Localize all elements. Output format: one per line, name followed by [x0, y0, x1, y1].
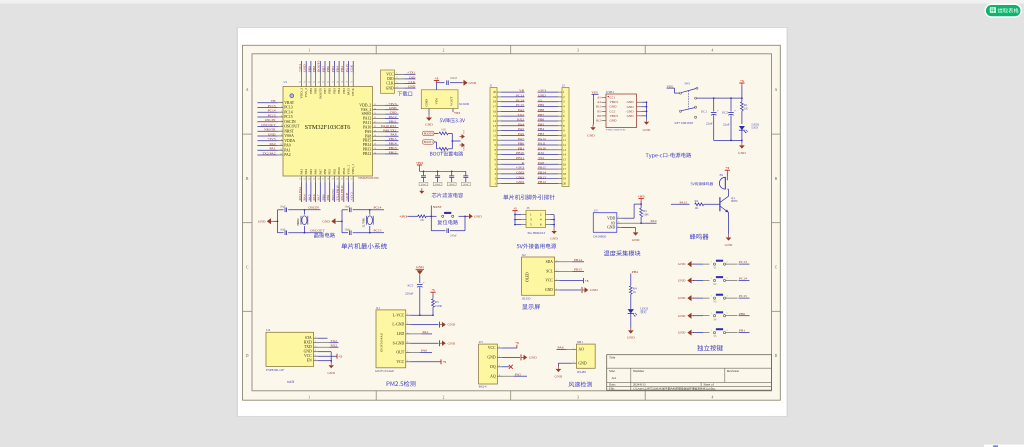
svg-text:22uF: 22uF [723, 122, 730, 126]
power +5 at regulator input [434, 76, 445, 90]
svg-text:150R: 150R [435, 304, 443, 308]
svg-text:+5: +5 [435, 76, 439, 80]
svg-text:PB4: PB4 [538, 127, 544, 131]
svg-text:DIO: DIO [387, 77, 394, 81]
svg-text:1: 1 [711, 330, 712, 332]
svg-text:U4: U4 [266, 328, 270, 332]
sensor U5 DS18B20 body [593, 213, 621, 233]
connector USB1 Type-C body [606, 94, 637, 128]
svg-text:OSCIN: OSCIN [284, 120, 296, 124]
svg-text:1: 1 [556, 288, 557, 290]
svg-text:45: 45 [313, 81, 315, 83]
value label TYPEC-2000-6CP6 [606, 129, 626, 132]
svg-text:BOOT1: BOOT1 [331, 189, 335, 201]
svg-text:VDDA: VDDA [284, 139, 295, 143]
svg-text:PB9: PB9 [309, 88, 313, 94]
svg-text:SCL: SCL [546, 270, 553, 274]
svg-text:VIN: VIN [667, 84, 674, 88]
svg-text:Number: Number [633, 369, 645, 373]
svg-text:1: 1 [407, 314, 408, 316]
svg-text:PC14: PC14 [739, 277, 747, 281]
key switch S3 with gnd and net PC15 [678, 294, 750, 304]
schematic sheet [237, 27, 789, 417]
power +5 at buzzer [725, 166, 730, 177]
svg-text:15: 15 [374, 148, 376, 150]
module U4 ESP8266-12F body [266, 332, 318, 366]
svg-text:PB3: PB3 [340, 66, 344, 72]
svg-text:GND: GND [545, 288, 553, 292]
label 5V外接备用电源 [517, 243, 557, 248]
svg-text:PB11: PB11 [516, 156, 524, 160]
value label RS485 [577, 370, 586, 374]
svg-text:PC14: PC14 [516, 98, 524, 102]
svg-text:GND: GND [738, 151, 746, 155]
svg-text:32.768K: 32.768K [362, 218, 365, 228]
svg-text:NPN: NPN [731, 199, 738, 203]
svg-text:PA11: PA11 [538, 142, 546, 146]
svg-text:4: 4 [712, 395, 714, 399]
net RX2 wifi [318, 343, 339, 347]
svg-text:4: 4 [315, 350, 316, 352]
power +5 at PM2.5 VCC [411, 359, 447, 364]
net TX2 wifi [318, 339, 339, 343]
gnd port at OLED [560, 287, 599, 293]
svg-text:100nF: 100nF [449, 183, 456, 186]
svg-text:AO: AO [578, 348, 584, 352]
svg-text:+3V3: +3V3 [267, 137, 275, 141]
switch SW1 [680, 82, 699, 119]
svg-text:10K: 10K [441, 129, 446, 132]
svg-text:MQ-4: MQ-4 [479, 385, 487, 389]
DS18B20 VDD wire [622, 203, 642, 218]
connector XH1 body [572, 344, 596, 368]
svg-text:PB3: PB3 [538, 132, 544, 136]
designator U4 [266, 328, 270, 332]
svg-text:GND: GND [587, 134, 595, 138]
gnd at XH1 [555, 363, 572, 378]
svg-text:Revision: Revision [727, 369, 739, 373]
svg-text:PB15: PB15 [389, 137, 397, 141]
svg-text:U1: U1 [284, 80, 288, 84]
label 显示屏 [522, 304, 540, 309]
power +5 at MQ-4 [502, 341, 520, 348]
svg-text:J3: J3 [527, 206, 530, 210]
designator X1 [376, 306, 380, 310]
svg-text:GND: GND [408, 85, 416, 89]
capacitor C4 30pF [345, 229, 370, 236]
svg-text:VBUS: VBUS [610, 100, 619, 104]
svg-text:VDD_3: VDD_3 [300, 88, 304, 99]
svg-text:PA6: PA6 [558, 346, 564, 350]
resistor R2 1K at base [671, 199, 720, 210]
USB1 left gnd [587, 94, 596, 137]
svg-text:PB1: PB1 [328, 168, 332, 174]
svg-text:SW1: SW1 [685, 82, 691, 86]
svg-text:TX3 PB10: TX3 PB10 [336, 185, 340, 200]
svg-text:PA5: PA5 [518, 127, 524, 131]
svg-text:GND: GND [386, 86, 394, 90]
svg-text:+3V3: +3V3 [638, 194, 645, 198]
svg-text:AQ: AQ [490, 374, 496, 378]
svg-text:VCC: VCC [386, 73, 394, 77]
svg-text:1k: 1k [633, 290, 637, 294]
svg-text:3: 3 [618, 226, 619, 228]
led LED1 [739, 122, 760, 140]
svg-text:IO: IO [611, 221, 615, 225]
svg-text:3: 3 [407, 332, 408, 334]
svg-text:VBAT: VBAT [284, 101, 295, 105]
svg-text:100nF: 100nF [450, 234, 458, 237]
designator U3 [479, 340, 483, 344]
power +3V3 reset [399, 214, 418, 218]
svg-text:2: 2 [727, 262, 728, 264]
svg-text:2: 2 [727, 330, 728, 332]
svg-text:3: 3 [315, 346, 316, 348]
svg-text:B12: B12 [596, 118, 601, 122]
resistor R4 1K [629, 286, 637, 309]
svg-text:RX1: RX1 [538, 151, 545, 155]
svg-text:RX2: RX2 [331, 343, 338, 347]
svg-text:PA9: PA9 [365, 130, 372, 134]
port BOOT1 [423, 140, 435, 144]
svg-text:PB14: PB14 [363, 143, 372, 147]
wifi STA stub [318, 337, 328, 339]
ground below regulator [425, 109, 433, 127]
svg-text:38: 38 [346, 81, 348, 83]
svg-text:1: 1 [711, 278, 712, 280]
svg-text:PA5: PA5 [307, 194, 311, 200]
svg-text:GND: GND [678, 314, 686, 318]
svg-text:D: D [775, 354, 778, 358]
svg-text:+5: +5 [515, 341, 519, 345]
J1 net labels [501, 89, 525, 184]
resistor R1 1K [741, 98, 749, 124]
svg-text:PA10: PA10 [363, 125, 371, 129]
svg-text:GND: GND [643, 128, 651, 132]
svg-text:20: 20 [336, 178, 338, 180]
svg-text:PA1: PA1 [423, 330, 429, 334]
svg-text:PB5: PB5 [538, 122, 544, 126]
svg-text:100nF: 100nF [420, 183, 427, 186]
svg-text:GND: GND [627, 100, 635, 104]
buzzer collector wire [727, 189, 728, 196]
label 晶振电路 [314, 233, 335, 238]
power +5 at OLED [560, 278, 589, 283]
capacitor EC1 22uF [701, 98, 719, 140]
svg-text:2: 2 [618, 222, 619, 224]
svg-text:12: 12 [280, 154, 282, 156]
svg-text:13: 13 [304, 178, 306, 180]
svg-text:1: 1 [281, 101, 282, 103]
svg-text:PA8: PA8 [538, 161, 544, 165]
svg-text:PB0: PB0 [518, 142, 524, 146]
net PA6 at XH1 [557, 346, 572, 350]
value label GP2Y1014AU [375, 369, 395, 373]
svg-text:16: 16 [374, 144, 376, 146]
svg-text:22uF: 22uF [706, 121, 713, 125]
U1 left pins (VBAT..PA2) [278, 101, 301, 157]
value label MQ-4 [479, 385, 487, 389]
svg-text:STA: STA [305, 336, 312, 340]
svg-text:OUT: OUT [396, 351, 404, 355]
svg-text:USB1: USB1 [606, 90, 614, 94]
svg-text:TYPEC-2000-6CP6: TYPEC-2000-6CP6 [606, 129, 626, 132]
svg-text:PA6: PA6 [518, 132, 524, 136]
svg-text:9: 9 [281, 139, 282, 141]
svg-text:GND: GND [529, 356, 537, 360]
svg-text:A4: A4 [612, 376, 616, 380]
label BOOT设置电路 [430, 151, 463, 156]
svg-text:J2: J2 [562, 83, 565, 87]
svg-text:PC14: PC14 [268, 109, 276, 113]
U1 bottom pins with rotated labels [299, 164, 355, 183]
svg-text:A4: A4 [597, 100, 601, 104]
svg-text:2: 2 [573, 362, 574, 364]
svg-text:10: 10 [280, 144, 282, 146]
label 单片机最小系统 [341, 243, 387, 249]
gnd port reset [464, 214, 482, 219]
svg-text:PB11: PB11 [342, 167, 346, 175]
svg-text:PB14: PB14 [538, 170, 546, 174]
svg-text:3: 3 [281, 111, 282, 113]
value label DS18B20 [593, 234, 606, 238]
key switch S4 with gnd and net PB0 [678, 311, 750, 321]
svg-text:11: 11 [280, 149, 282, 151]
power +5 wifi VCC [318, 354, 342, 359]
display module X2 OLED body [522, 257, 560, 295]
label Type-c口-电源电路 [646, 153, 692, 159]
net +3V3 regulator output [453, 109, 461, 115]
svg-text:GND: GND [678, 296, 686, 300]
svg-text:100nF: 100nF [450, 77, 458, 80]
svg-text:PA4: PA4 [304, 169, 308, 175]
svg-text:PC13: PC13 [516, 94, 524, 98]
svg-text:BOOT0: BOOT0 [424, 132, 434, 136]
value label KF7 DIP-8X8 [675, 121, 694, 125]
capacitor C1 30pF [280, 206, 304, 213]
svg-text:PB1: PB1 [739, 329, 745, 333]
svg-text:PA11: PA11 [363, 121, 371, 125]
svg-text:PB10: PB10 [337, 167, 341, 175]
svg-text:GND: GND [610, 118, 618, 122]
svg-text:1: 1 [711, 313, 712, 315]
svg-text:14: 14 [308, 178, 310, 180]
svg-text:GND: GND [516, 175, 524, 179]
svg-text:X2: X2 [522, 253, 526, 257]
reset push button S6 [431, 212, 465, 218]
svg-text:PB0: PB0 [321, 194, 325, 200]
svg-text:EN: EN [307, 359, 312, 363]
power +5 at PM2.5 [430, 288, 435, 299]
capacitor 100nF at regulator [447, 77, 462, 85]
svg-text:SDA: SDA [546, 260, 554, 264]
svg-text:15: 15 [313, 178, 315, 180]
svg-text:42: 42 [327, 81, 329, 83]
value label ESP8266-12F [266, 368, 284, 372]
svg-text:3: 3 [577, 49, 579, 53]
svg-text:CC2: CC2 [610, 109, 616, 113]
label wifi [287, 379, 295, 384]
svg-text:PC14: PC14 [284, 110, 293, 114]
designator J1 [490, 83, 493, 87]
svg-text:PC13: PC13 [739, 260, 747, 264]
crystal rail 2 [341, 210, 348, 233]
svg-text:PB14: PB14 [389, 142, 397, 146]
svg-text:RS485: RS485 [577, 370, 586, 374]
svg-text:GND: GND [678, 331, 686, 335]
svg-text:GND: GND [487, 356, 495, 360]
svg-text:DQ: DQ [490, 365, 496, 369]
svg-text:30pF: 30pF [280, 229, 286, 232]
svg-text:PB8: PB8 [538, 108, 544, 112]
svg-text:OSCIN: OSCIN [265, 118, 276, 122]
U1 top net labels and wires [298, 60, 354, 72]
svg-text:KF7 DIP-8X8: KF7 DIP-8X8 [675, 121, 694, 125]
svg-text:GND: GND [469, 81, 477, 85]
svg-text:GND: GND [627, 109, 635, 113]
net OSCIN [304, 206, 320, 210]
label 单片机引脚外引排针 [503, 195, 555, 200]
op-amp U1 STM32F103C8T6 body [283, 87, 373, 177]
svg-text:TX2: TX2 [517, 113, 524, 117]
svg-text:6: 6 [315, 359, 316, 361]
svg-text:48: 48 [299, 81, 301, 83]
svg-text:PC13: PC13 [284, 106, 293, 110]
svg-text:16: 16 [318, 178, 320, 180]
svg-text:10K: 10K [420, 219, 425, 222]
svg-text:1: 1 [711, 296, 712, 298]
green toolbar button 提取表格 [985, 4, 1021, 17]
svg-text:25: 25 [374, 104, 376, 106]
svg-text:+5: +5 [442, 360, 446, 364]
svg-text:VOUT: VOUT [450, 96, 454, 106]
key switch S1 with gnd and net PC13 [678, 260, 750, 270]
svg-text:Pin HDR2X3: Pin HDR2X3 [528, 231, 546, 235]
U1 left net labels and wires [257, 99, 277, 155]
title block [607, 355, 772, 391]
svg-text:PB5: PB5 [331, 66, 335, 72]
svg-text:18: 18 [374, 135, 376, 137]
net PA0 at PM2.5 OUT [411, 349, 433, 353]
label 蜂鸣器 [690, 234, 709, 240]
svg-text:21: 21 [341, 178, 343, 180]
decoupling capacitors 4x100nF [419, 170, 470, 186]
svg-text:GND: GND [322, 219, 330, 223]
svg-text:CC1: CC1 [610, 96, 616, 100]
svg-text:DIO: DIO [409, 75, 416, 79]
svg-text:RX2 PA3: RX2 PA3 [298, 187, 302, 201]
svg-text:PA5: PA5 [309, 169, 313, 175]
svg-text:3: 3 [396, 82, 397, 84]
regulator U6 XC6206 body [421, 90, 458, 109]
svg-text:23: 23 [374, 113, 376, 115]
label 风速检测 [569, 382, 592, 388]
net PA1 at PM2.5 LED [411, 330, 433, 334]
svg-text:PB6: PB6 [538, 118, 544, 122]
svg-text:GND: GND [425, 99, 429, 107]
svg-text:OSCIN: OSCIN [308, 206, 319, 210]
buzzer B1 [719, 173, 727, 189]
svg-text:PB7: PB7 [538, 113, 544, 117]
svg-text:37: 37 [351, 81, 353, 83]
net PB15 at OLED [560, 268, 585, 272]
svg-text:GND: GND [538, 94, 546, 98]
DS18B20 gnd [622, 228, 640, 242]
led LED2 [628, 307, 649, 328]
svg-text:GND: GND [610, 105, 618, 109]
ground for filter caps [419, 187, 424, 194]
svg-text:GND: GND [448, 323, 456, 327]
net PC14 [370, 206, 384, 210]
svg-text:PB4: PB4 [336, 66, 340, 72]
svg-text:GND: GND [627, 114, 635, 118]
svg-text:1: 1 [711, 262, 712, 264]
net PB4 LED2 [631, 270, 638, 285]
svg-text:23: 23 [351, 178, 353, 180]
svg-text:2: 2 [556, 279, 557, 281]
svg-text:24: 24 [374, 108, 376, 110]
svg-text:GND: GND [258, 219, 266, 223]
label PM2.5检测 [387, 381, 416, 387]
svg-text:PA10: PA10 [538, 146, 546, 150]
svg-text:1: 1 [499, 346, 500, 348]
download header net labels [405, 71, 416, 89]
designator XH1 [577, 340, 584, 344]
svg-text:VCC: VCC [488, 346, 496, 350]
svg-text:ESP8266-12F: ESP8266-12F [266, 368, 284, 372]
J2 net labels [538, 89, 559, 184]
svg-text:PB9: PB9 [307, 66, 311, 72]
svg-text:+TX1: +TX1 [407, 71, 415, 75]
wifi gnd net [318, 352, 335, 375]
capacitor C5 100nF reset [431, 216, 465, 237]
svg-text:GND: GND [632, 238, 640, 242]
svg-text:A5: A5 [597, 96, 601, 100]
gnd port at MQ-4 [502, 354, 537, 360]
svg-text:PA9 TX1: PA9 TX1 [383, 128, 397, 132]
svg-text:30pF: 30pF [345, 206, 351, 209]
capacitor EC5 220uF [405, 282, 425, 316]
svg-text:PB11: PB11 [389, 119, 397, 123]
crystal rail 1 [277, 210, 284, 233]
svg-text:PA15: PA15 [680, 200, 688, 204]
svg-text:4: 4 [499, 375, 500, 377]
svg-text:GND: GND [448, 341, 456, 345]
designator J3 [527, 206, 530, 210]
svg-text:1: 1 [315, 337, 316, 339]
capacitor EC2 22uF [722, 98, 736, 140]
svg-text:BOOT0: BOOT0 [318, 88, 322, 99]
svg-text:47: 47 [304, 81, 306, 83]
svg-text:PA6: PA6 [314, 169, 318, 175]
svg-text:GND: GND [678, 279, 686, 283]
svg-text:Title: Title [609, 356, 616, 360]
svg-text:R2: R2 [695, 199, 699, 203]
svg-text:40: 40 [336, 81, 338, 83]
svg-text:2024/8/13: 2024/8/13 [633, 383, 646, 387]
svg-text:NRST: NRST [433, 205, 443, 209]
power +5 at switch circuit [739, 79, 744, 99]
PM2.5 pin1 wire [411, 314, 434, 316]
svg-text:U5: U5 [594, 209, 598, 213]
svg-text:GP2Y1014AU: GP2Y1014AU [375, 369, 395, 373]
svg-text:B5: B5 [597, 109, 601, 113]
svg-text:OSCOUT: OSCOUT [261, 123, 276, 127]
svg-text:1K: 1K [695, 206, 700, 210]
svg-text:GND: GND [304, 350, 312, 354]
svg-text:wifi: wifi [287, 379, 295, 384]
svg-text:VSSA: VSSA [284, 134, 294, 138]
